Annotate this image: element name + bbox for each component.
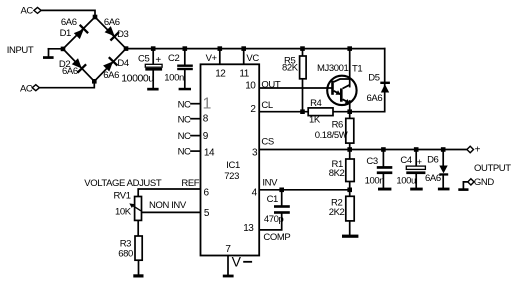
wire REF pin6 to RV1 [138,189,200,197]
wire R1 bottom lead [349,182,351,190]
diode D6 [439,166,448,176]
wire NC pin9 stub [191,135,201,137]
svg-text:NC: NC [178,114,191,125]
ground stub C5 [147,88,158,91]
junction R5 CL [300,109,305,114]
svg-text:2K2: 2K2 [329,207,345,218]
terminal AC bottom [32,85,39,91]
terminal AC top [34,7,41,13]
svg-text:12: 12 [215,68,226,79]
svg-text:1: 1 [203,95,212,112]
capacitor C5 [145,64,162,70]
svg-text:470p: 470p [264,214,284,225]
junction C5 rail [151,46,156,51]
svg-text:13: 13 [243,223,254,234]
svg-text:82K: 82K [282,62,299,73]
wire C3 top lead [382,150,384,167]
svg-text:C4: C4 [400,155,411,166]
ground stub C2 [179,88,191,91]
bridge edge left-bottom [63,49,94,81]
resistor R2 [346,196,354,221]
transistor T1 MJ3001 [327,76,356,105]
svg-text:RV1: RV1 [114,190,131,201]
wire COMP pin13 to C1 [259,214,282,230]
junction collector rail [347,46,352,51]
svg-text:6A6: 6A6 [103,70,119,81]
svg-text:OUT: OUT [261,79,280,90]
svg-text:6A6: 6A6 [425,173,441,184]
svg-text:C2: C2 [168,53,179,64]
terminal output GND [468,179,474,185]
wire C2 top lead [184,49,186,65]
svg-text:AC: AC [21,5,34,16]
resistor R1 [346,159,354,182]
junction bridge top node [93,15,98,20]
svg-text:T1: T1 [352,64,362,75]
svg-text:CL: CL [261,100,272,111]
svg-text:D6: D6 [427,155,438,166]
svg-text:REF: REF [181,178,199,189]
svg-text:VOLTAGE ADJUST: VOLTAGE ADJUST [84,178,162,189]
wire input stub to bridge left node [49,48,64,50]
potentiometer RV1 [129,197,141,221]
wire R3 to ground [138,260,140,274]
wire C5 top lead [152,49,154,65]
svg-text:D4: D4 [117,58,128,69]
capacitor C3 [377,166,393,174]
capacitor C2 [177,65,193,71]
svg-text:OUTPUT: OUTPUT [474,163,511,174]
svg-text:+: + [475,144,481,155]
wire OUT pin10 to base [259,87,331,89]
junction C1 INV [279,188,284,193]
wire CL pin2 to R4 [259,111,308,113]
wire NC pin8 stub [191,118,201,120]
wire R4 to emitter node [333,111,350,113]
svg-text:+: + [155,55,161,66]
wire CS pin3 to output [259,149,467,151]
svg-text:10: 10 [245,80,256,91]
junction VC rail [241,46,246,51]
ground stub D6 [438,188,450,191]
wire NC pin14 stub [191,150,201,152]
junction D6 CS [441,147,446,152]
svg-text:14: 14 [204,148,215,159]
svg-text:D1: D1 [60,28,71,39]
junction R1 R2 INV [347,188,352,193]
junction C4 CS [414,147,419,152]
capacitor C1 [274,205,290,214]
svg-text:INV: INV [262,177,278,188]
junction V+ rail [218,46,223,51]
svg-text:680: 680 [118,248,133,259]
ground stub R3 [133,274,143,277]
svg-text:+: + [417,157,422,167]
svg-text:NON INV: NON INV [149,200,187,211]
svg-text:D3: D3 [117,29,128,40]
svg-text:NC: NC [178,131,191,142]
capacitor C4 [406,166,425,174]
svg-text:6A6: 6A6 [104,17,120,28]
diode D4 [103,57,117,71]
wire emitter down [349,101,351,112]
svg-text:C5: C5 [138,54,149,65]
svg-text:6A6: 6A6 [367,93,383,104]
svg-text:100n: 100n [164,73,184,84]
svg-text:NC: NC [178,147,191,158]
junction bridge left node [61,47,66,52]
wire NON INV pin5 to RV1 wiper [141,211,200,213]
bridge edge top-right [95,17,126,49]
ground stub C4 [410,188,423,191]
ground stub GND terminal [458,188,468,191]
svg-text:100n: 100n [365,175,385,186]
ground stub R2 [342,235,358,238]
junction R6 R1 CS [347,147,352,152]
svg-text:8K2: 8K2 [329,168,345,179]
svg-text:C1: C1 [267,194,278,205]
input 0V stub [48,49,50,56]
svg-text:VC: VC [246,53,259,64]
svg-text:CS: CS [261,136,273,147]
svg-text:723: 723 [224,171,239,182]
svg-text:1K: 1K [309,115,321,126]
ground stub input [43,56,54,59]
diode D2 [72,58,86,72]
svg-text:MJ3001: MJ3001 [317,63,349,74]
wire D6 top lead [442,150,444,166]
svg-text:6A6: 6A6 [62,66,78,77]
wire rail to D5 to emitter node [350,49,385,112]
wire RV1 to R3 [137,220,139,236]
junction emitter node [347,109,352,114]
wire D6 to ground [442,176,444,188]
svg-text:COMP: COMP [263,232,290,243]
wire AC top to bridge [41,10,95,17]
svg-text:V: V [232,254,242,270]
wire GND terminal stub [463,182,467,189]
wire AC bottom to bridge [39,81,94,87]
wire C2 bottom lead [184,70,186,88]
resistor R3 [135,236,142,260]
junction bridge bottom node [92,79,97,84]
ground stub C3 [378,188,391,191]
svg-text:AC: AC [20,83,33,94]
wire R6 bottom lead [349,143,351,149]
wire R6 top lead [349,112,351,119]
svg-text:0.18/5W: 0.18/5W [315,130,348,141]
svg-text:100u: 100u [396,175,416,186]
svg-text:R4: R4 [310,98,321,109]
junction C2 rail [183,46,188,51]
svg-text:C3: C3 [366,156,377,167]
diode D1 [74,25,88,39]
diode D3 [105,26,119,40]
svg-text:GND: GND [474,177,494,188]
wire C4 top lead [415,150,417,167]
svg-text:10000u: 10000u [121,72,154,84]
wire INV pin4 to divider [259,189,350,191]
wire C5 bottom lead [152,71,154,88]
pin label V- [232,254,253,270]
wire R2 to ground [349,221,351,235]
junction C3 CS [381,147,386,152]
resistor R4 [308,108,333,116]
wire C4 to ground [415,174,417,188]
wire R5 vertical [302,49,304,112]
wire C3 to ground [382,174,384,188]
IC U1 box 723 [201,64,260,255]
svg-text:D5: D5 [368,72,379,83]
wire collector to rail [349,49,351,87]
resistor R5 [300,56,307,79]
ground stub pin7 [223,275,234,278]
diode D5 [380,82,390,93]
wire pin11 VC stub [243,49,245,65]
bridge edge bottom-right [94,49,126,82]
terminal output plus [467,146,474,153]
svg-text:11: 11 [239,68,249,79]
svg-text:IC1: IC1 [226,160,240,171]
junction bridge right node [124,46,129,51]
resistor R6 [346,118,354,143]
junction R5 rail [300,46,305,51]
wire NC pin1 stub [191,103,201,105]
svg-text:INPUT: INPUT [7,45,34,56]
svg-text:R6: R6 [332,120,343,131]
svg-text:6A6: 6A6 [61,17,77,28]
wire C1 top lead [281,190,283,205]
svg-text:NC: NC [178,99,191,110]
wire pin7 to ground [227,256,229,275]
wire pin12 V+ stub [219,49,221,65]
svg-text:V+: V+ [206,53,218,64]
wire R2 top lead [349,190,351,197]
wire V+ rail [126,48,385,50]
wire R1 top lead [349,150,351,160]
svg-text:10K: 10K [115,206,132,217]
bridge edge left-top [63,17,95,49]
